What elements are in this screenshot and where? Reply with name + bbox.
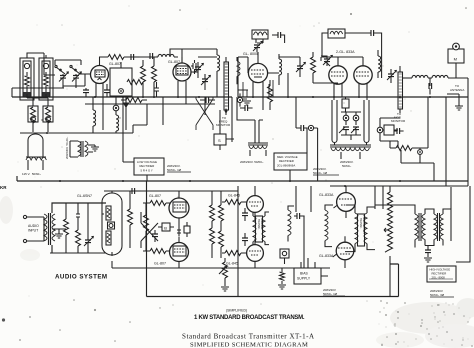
grid resistor R4 [141, 60, 146, 97]
variable capacitor C1 [59, 72, 68, 87]
screen resistor R24 [121, 98, 147, 103]
filament fuse box F1 [342, 97, 349, 112]
label AUDIO INPUT [28, 224, 39, 233]
grid coil L4 [279, 54, 282, 85]
feedback pot R22 [219, 258, 228, 286]
PA filament choke L11 [332, 100, 337, 146]
audio input terminal J2 [23, 239, 44, 242]
meter M10 [418, 148, 423, 158]
meter M5 [113, 97, 119, 115]
filament caps C17 [341, 112, 361, 140]
filament varcap marks [339, 127, 357, 133]
ground G7 [243, 99, 251, 105]
PA tube V4 GL-833A [329, 57, 347, 100]
varcap C6 [201, 74, 210, 90]
cathode cap C11 [240, 105, 253, 111]
bias supply box [294, 258, 328, 284]
svg-text:50/60~ 3Ø: 50/60~ 3Ø [430, 293, 445, 297]
svg-text:GL- 8005: GL- 8005 [243, 52, 258, 56]
crystal oven Y1 [20, 58, 34, 100]
wires PA top [313, 33, 371, 83]
level box B1 [158, 223, 174, 231]
label TO FREQ MONITOR [216, 116, 231, 127]
meter box M11 [280, 249, 289, 264]
svg-text:GL-833A: GL-833A [319, 193, 334, 197]
coupling cap C19 [132, 188, 141, 194]
PA tube V5 GL-833A [354, 57, 372, 100]
monitor cap C25 [394, 128, 404, 134]
bias resistor R9 [390, 146, 418, 151]
vertical feed wires [123, 97, 263, 162]
phase splitter V6 GL-6SN7 [102, 191, 122, 256]
svg-text:GL-6SN7: GL-6SN7 [77, 194, 92, 198]
svg-text:50/60~ 1Ø: 50/60~ 1Ø [313, 171, 328, 175]
grid resistor R10 [64, 203, 69, 253]
feed verticals right [375, 186, 470, 297]
RF ammeter column M1 [224, 57, 229, 115]
wires power row right [380, 78, 468, 186]
coupling cap C22 [242, 233, 248, 246]
svg-text:1 KW STANDARD BROADCAST TRANSM: 1 KW STANDARD BROADCAST TRANSM. [194, 315, 305, 321]
svg-text:B: B [164, 226, 167, 231]
svg-text:AUDIO SYSTEM: AUDIO SYSTEM [55, 274, 108, 281]
secondary winding L13 [288, 206, 294, 242]
svg-text:50/60~: 50/60~ [342, 164, 352, 168]
plate resistor R3 [99, 55, 133, 60]
oscillator tube V1 GL-807 [91, 57, 109, 104]
output coil L8 [428, 75, 454, 78]
interstage varcap C10 [296, 60, 305, 77]
med voltage rectifier box [274, 153, 307, 181]
switch S1b [70, 65, 80, 74]
PA filament choke L12 [364, 100, 369, 146]
svg-text:GL-807: GL-807 [109, 62, 121, 66]
driver tank varcap C8 [253, 39, 263, 52]
ground G4 [221, 287, 229, 291]
coupling cap C21 [242, 208, 248, 221]
smoothing cap C16 [296, 125, 308, 131]
variable capacitor C2 [72, 72, 81, 87]
tank capacitor C4 [150, 49, 182, 63]
antenna ammeter box M4 [448, 43, 464, 78]
oven resistor R2 [43, 100, 53, 132]
enclosure bottom [147, 264, 399, 297]
grid resistor R13 [143, 201, 170, 206]
neutralizing resistor R8 [311, 52, 316, 83]
wire crystal tops to switch loop [27, 53, 81, 75]
833A grid winding L14 [325, 205, 333, 247]
coupling box S [214, 108, 234, 150]
PA tank coil box L5 [328, 29, 345, 38]
svg-text:GL-807: GL-807 [168, 60, 180, 64]
svg-text:GL-845: GL-845 [226, 262, 238, 266]
svg-text:GL-807: GL-807 [154, 262, 166, 266]
grid coil L4a [237, 57, 240, 84]
screen caps C7 [200, 97, 215, 103]
switch S1a [55, 65, 65, 74]
ground G6 [52, 229, 66, 238]
grid caps C26 [83, 84, 110, 97]
modulator tube V11 GL-833A [334, 186, 356, 218]
wires buffer stage [182, 49, 217, 74]
gain capacitor C18 [84, 203, 93, 253]
screen resistor R7 [268, 80, 273, 110]
svg-text:SUPPLY: SUPPLY [297, 277, 311, 281]
driver tank coil box L3 [252, 30, 268, 39]
audio input transformer T5 [44, 203, 106, 253]
buffer tube V2 GL-807 [173, 57, 191, 104]
bias resistor R15 [144, 203, 149, 251]
grid resistor R14 [143, 249, 170, 254]
PA grid coil L6 [378, 50, 381, 78]
bias transformer T2 [70, 141, 93, 157]
feed vertical x238 [232, 57, 238, 297]
wire driver pins [243, 80, 273, 97]
svg-text:5 R 4 G Y: 5 R 4 G Y [141, 169, 153, 173]
coupling capacitor C3 [131, 54, 140, 60]
svg-text:MONITOR: MONITOR [391, 119, 406, 123]
grid resistor R20 [222, 251, 247, 256]
svg-text:2-GL- 833A: 2-GL- 833A [336, 50, 355, 54]
PA filament transformer T4 [330, 145, 371, 159]
ground G1 [447, 94, 463, 110]
plate resistor R16 [210, 191, 215, 258]
svg-text:M: M [454, 57, 457, 62]
low voltage rectifier box [123, 158, 164, 181]
label TO ANTENNA [450, 84, 464, 92]
wire interconnect [93, 104, 147, 133]
grid resistor R5 [152, 57, 157, 97]
meter M6 [296, 97, 318, 181]
svg-text:208/230V. 50/60~: 208/230V. 50/60~ [240, 160, 264, 164]
crystal oven Y2 [39, 58, 53, 100]
scan specks [41, 7, 467, 121]
svg-text:TRANSF.: TRANSF. [257, 219, 260, 230]
feed vertical x296 [296, 186, 311, 268]
filament transformer T1 [26, 134, 46, 170]
driver tube V8 GL-807 [170, 237, 189, 269]
reactor transformer T8 [375, 205, 433, 248]
svg-text:BIAS: BIAS [300, 272, 308, 276]
neutralizing varcap C5 [194, 62, 203, 78]
wire switch to grid [44, 73, 91, 88]
svg-text:2GL-866/866A: 2GL-866/866A [277, 164, 295, 168]
label 208/230V bias [323, 288, 345, 296]
svg-text:AUDIO: AUDIO [28, 224, 39, 228]
svg-text:INPUT: INPUT [28, 229, 38, 233]
balance box B2 [184, 222, 190, 237]
svg-text:(SIMPLIFIED): (SIMPLIFIED) [226, 309, 247, 313]
enclosure left [146, 181, 148, 297]
PA neutralizing varcap C12 [321, 55, 332, 66]
ground G3 [424, 258, 432, 262]
grid caps C23 [294, 213, 305, 219]
tank capacitor C9 [272, 32, 285, 43]
PA tank capacitor C13 [347, 30, 382, 78]
label 208/230V med [313, 167, 339, 175]
filter choke L10 [116, 115, 119, 133]
bias pot R23 [280, 268, 285, 284]
rectifier diode D1 [124, 97, 129, 111]
scan speckle bottom right [379, 300, 473, 347]
label 208/230V HV [430, 289, 454, 297]
PA tune varcap C14 [387, 69, 396, 83]
bus junction dots [46, 96, 431, 187]
plate resistor R12 [128, 191, 133, 248]
bleeder resistor R21 [384, 186, 393, 264]
svg-text:Standard Broadcast Transmitter: Standard Broadcast Transmitter XT-1-A [182, 332, 315, 340]
svg-text:MONITOR: MONITOR [216, 123, 231, 127]
svg-text:GL-807: GL-807 [149, 194, 161, 198]
filter choke L9 [93, 97, 96, 133]
high voltage rectifier box [427, 266, 456, 282]
crossover wires [196, 97, 213, 130]
label 208/230V 1ph [167, 164, 191, 172]
filament meter M7 [343, 112, 349, 125]
svg-text:ANTENNA: ANTENNA [450, 88, 464, 92]
modulator tube V12 GL-833A [333, 236, 354, 268]
scan smudge left-mid [0, 196, 40, 261]
bottom rail left [20, 94, 120, 133]
meter circle M2 [237, 93, 242, 106]
svg-text:KR: KR [0, 185, 7, 190]
pad resistor R11 [76, 203, 81, 253]
audio bottom bus [112, 261, 330, 268]
long rail y181 [17, 176, 468, 181]
ground G2 [91, 145, 99, 151]
svg-text:115 V. 50/60~: 115 V. 50/60~ [22, 172, 41, 176]
oven control box [110, 62, 132, 97]
svg-text:RECTIFIER: RECTIFIER [140, 164, 155, 168]
label 208/230V T4 [340, 160, 354, 168]
driver tube V7 GL-807 [169, 191, 189, 228]
driver transformer T6 [253, 212, 269, 245]
coupling capacitor C15 [429, 78, 432, 95]
secondary bus [12, 88, 215, 104]
driver tube V10 GL-845 [247, 239, 264, 268]
svg-text:S: S [218, 138, 221, 143]
driver tube V9 GL-845 [247, 186, 264, 220]
filter cap C24 [425, 246, 431, 258]
svg-text:RECTIFIER: RECTIFIER [279, 159, 294, 163]
resistor R18 [219, 231, 224, 258]
tank coil L1 [139, 54, 178, 57]
cathode resistor R6 [121, 80, 159, 98]
bias cell box B3 [108, 222, 115, 229]
svg-text:208/230V 50-60~: 208/230V 50-60~ [65, 136, 69, 159]
modulation transformer T7 [345, 205, 375, 252]
grid meter box M9 [377, 118, 398, 141]
plate choke L2 [217, 49, 220, 97]
wires driver stage [238, 57, 300, 97]
svg-text:50/60~ 1Ø: 50/60~ 1Ø [167, 168, 182, 172]
scan dots bottom left [2, 299, 161, 342]
bottom rail audio input [50, 252, 106, 254]
reactor winding L15 [425, 209, 451, 246]
scan smudge bottom-right [376, 298, 474, 348]
svg-text:SIMPLIFIED SCHEMATIC DIAGRAM: SIMPLIFIED SCHEMATIC DIAGRAM [190, 341, 308, 348]
ground bus [12, 96, 468, 98]
label TO MOD MONITOR [391, 112, 406, 123]
ground G5 [278, 285, 286, 289]
med voltage transformer T3 [248, 120, 268, 156]
svg-text:GL-833A: GL-833A [319, 254, 334, 258]
grid resistor R19 [222, 200, 247, 205]
audio top bus [104, 190, 238, 192]
driver tube V3 GL-8005 [248, 52, 267, 110]
cross-coupling wires [141, 212, 158, 248]
rail stub right [330, 181, 468, 186]
oven resistor R1 [28, 100, 38, 132]
svg-text:TRANSF.: TRANSF. [359, 218, 362, 229]
output coil L7 [403, 75, 428, 78]
cathode chain [177, 228, 181, 236]
svg-text:50/60~ 1Ø: 50/60~ 1Ø [323, 292, 338, 296]
audio input terminal J1 [23, 215, 44, 218]
RF line ammeter column M3 [398, 66, 403, 113]
plate resistor R17 [219, 191, 224, 231]
filament meter M8 [353, 112, 359, 125]
coupling cap C20 [152, 230, 158, 242]
